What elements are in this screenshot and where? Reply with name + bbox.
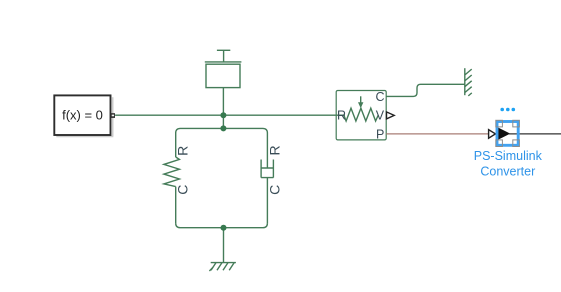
svg-text:C: C xyxy=(375,90,384,104)
svg-text:C: C xyxy=(267,185,283,195)
svg-text:P: P xyxy=(376,127,384,141)
svg-text:PS-Simulink: PS-Simulink xyxy=(474,149,543,163)
svg-text:f(x) = 0: f(x) = 0 xyxy=(62,108,103,123)
svg-text:Converter: Converter xyxy=(480,165,535,179)
svg-text:R: R xyxy=(175,146,191,156)
svg-text:R: R xyxy=(267,145,283,155)
svg-text:V: V xyxy=(376,109,385,123)
svg-text:R: R xyxy=(337,109,346,123)
svg-text:C: C xyxy=(174,185,190,195)
